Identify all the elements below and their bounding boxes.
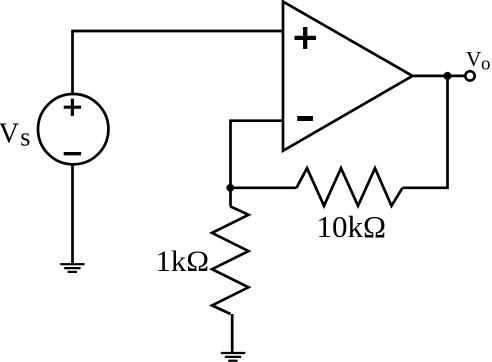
svg-text:1kΩ: 1kΩ: [156, 245, 210, 278]
wire: node A to 1k resistor: [229, 189, 232, 207]
wire: 10k resistor to output node: [403, 76, 448, 188]
wire: 1k resistor to ground: [231, 314, 234, 352]
resistor R1 1kohm: [212, 207, 249, 315]
svg-text:s: s: [20, 123, 30, 152]
label vo: [466, 47, 491, 75]
wire: node A to 10k resistor: [231, 186, 297, 189]
svg-text:o: o: [481, 54, 491, 75]
resistor R2 10kohm: [297, 168, 403, 206]
wire: op-amp output: [413, 75, 465, 78]
terminal vo (open circle): [465, 71, 474, 80]
op-amp U1: [283, 2, 413, 151]
op-amp - pin marker: [297, 116, 313, 121]
node B (output junction): [444, 72, 452, 80]
wire: Vs bottom to ground: [71, 166, 74, 264]
wire: Vs top to op-amp noninverting input: [73, 31, 284, 93]
svg-text:V: V: [0, 118, 20, 149]
svg-text:V: V: [466, 47, 482, 71]
label vs: [0, 118, 30, 151]
op-amp + pin marker: [295, 27, 317, 49]
voltage source VS: [38, 94, 108, 164]
svg-text:10kΩ: 10kΩ: [317, 209, 387, 244]
ground (under R1): [221, 353, 245, 361]
wire: inverting input to feedback node: [231, 121, 284, 186]
node A (feedback junction): [226, 184, 234, 192]
ground (under Vs): [60, 264, 84, 272]
